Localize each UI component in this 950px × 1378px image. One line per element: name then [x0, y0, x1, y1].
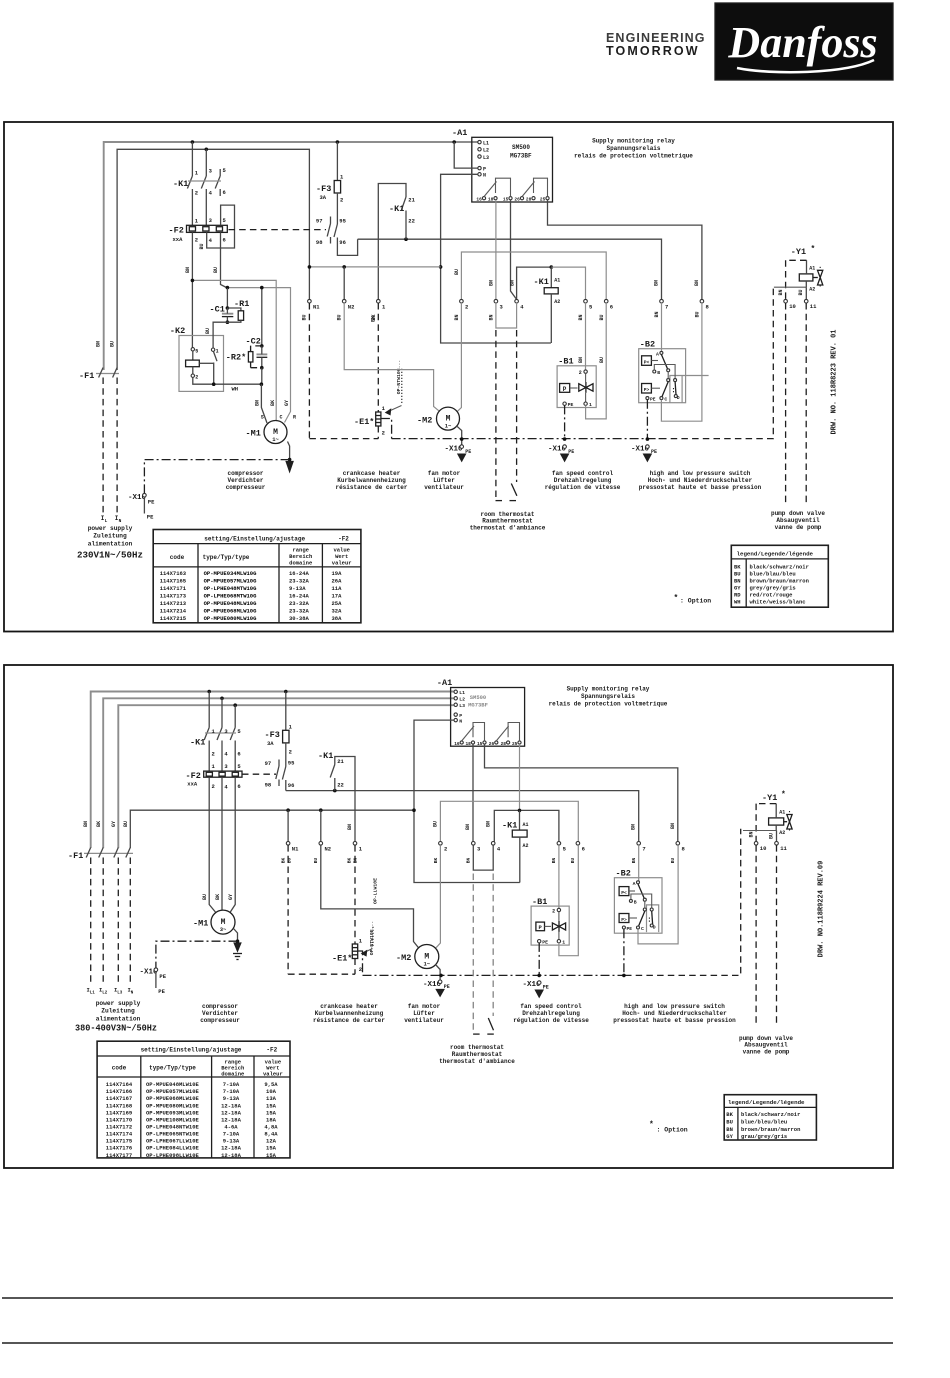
- label fan motor (box1): [424, 470, 464, 491]
- terminal 7 (box2): [631, 842, 646, 864]
- label pump down valve (box1): [771, 510, 825, 531]
- svg-text:114X7170: 114X7170: [106, 1116, 132, 1123]
- svg-text:P>: P>: [621, 917, 627, 923]
- svg-text:4-6A: 4-6A: [224, 1124, 238, 1131]
- node junction K1-22 (box2): [333, 789, 337, 793]
- svg-text:98: 98: [265, 782, 272, 789]
- B2 bottom terminals PE C D: [646, 388, 680, 403]
- wire neutral horizontal to N-junction: [309, 266, 440, 268]
- label IL IN supply currents: [101, 515, 122, 524]
- svg-text:PE: PE: [627, 926, 633, 932]
- svg-text:BK: BK: [281, 858, 287, 864]
- svg-text:114X7165: 114X7165: [160, 578, 187, 585]
- svg-text:PE: PE: [148, 499, 155, 506]
- ENGINEERING TOMORROW wordmark: [606, 31, 706, 58]
- svg-text:BN: BN: [465, 824, 471, 830]
- wire M1 ground (box2): [234, 929, 240, 944]
- svg-text:25A: 25A: [332, 600, 343, 607]
- terminal X10 PE left (box2): [140, 968, 167, 995]
- B2 wire B to second pole: [654, 365, 675, 379]
- wire B2 PE dash-dot: [646, 400, 650, 441]
- schematic 2 border frame: [4, 665, 893, 1168]
- ground arrow and earth under M1 (box2): [233, 943, 242, 960]
- svg-text:BU: BU: [123, 821, 129, 827]
- svg-text:valeur: valeur: [263, 1071, 283, 1078]
- svg-text:114X7175: 114X7175: [106, 1138, 133, 1145]
- svg-text:BU: BU: [213, 267, 219, 273]
- terminal X10 PE left (box1): [128, 493, 155, 520]
- svg-text:WH: WH: [232, 386, 239, 393]
- svg-text:5: 5: [195, 348, 198, 354]
- svg-text:N2: N2: [325, 846, 332, 853]
- svg-text:brown/braun/marron: brown/braun/marron: [741, 1126, 800, 1133]
- label high low pressure switch (box1): [639, 470, 762, 491]
- svg-text:114X7167: 114X7167: [106, 1095, 132, 1102]
- B2 second switch (box2): [619, 901, 653, 926]
- wire 96 line to terminal 7 (box2): [286, 791, 639, 842]
- svg-text:6: 6: [223, 189, 226, 196]
- svg-text:SM500: SM500: [470, 694, 487, 701]
- wire M1 S lead: [255, 384, 268, 423]
- svg-text:BU: BU: [337, 314, 343, 320]
- wire B1-1 to terminal 6 (box2): [559, 845, 578, 956]
- node junction N bus end (box2): [412, 808, 416, 812]
- svg-text:OP-LPHE065NTW10E: OP-LPHE065NTW10E: [146, 1131, 200, 1138]
- terminal 2 (box1): [454, 269, 468, 321]
- terminal 3 (box1): [489, 299, 504, 320]
- wire horizontal net to terminal 7: [358, 239, 662, 299]
- svg-text:-M2: -M2: [417, 416, 432, 426]
- legend table (box1): [731, 545, 828, 607]
- svg-text:BU: BU: [670, 858, 676, 864]
- svg-text:A: A: [633, 881, 636, 887]
- svg-text:16: 16: [454, 741, 460, 747]
- svg-text:BN: BN: [489, 280, 495, 286]
- E1 leader arrow and type labels (box2): [362, 878, 379, 956]
- svg-text:setting/Einstellung/ajustage: setting/Einstellung/ajustage: [141, 1047, 242, 1054]
- svg-text:N: N: [459, 719, 462, 725]
- svg-text:97: 97: [316, 218, 323, 225]
- wire N bus (box1): [117, 149, 309, 370]
- terminal 11 (box2): [769, 833, 788, 1027]
- svg-text:résistance de carter: résistance de carter: [313, 1017, 385, 1024]
- svg-text:DRW. NO.118R9224 REV.09: DRW. NO.118R9224 REV.09: [818, 861, 826, 958]
- wire B1-1 to terminal 6: [586, 303, 607, 419]
- svg-text:pressostat haute et basse pres: pressostat haute et basse pression: [639, 484, 762, 491]
- svg-text:12-18A: 12-18A: [221, 1116, 242, 1123]
- svg-text:114X7176: 114X7176: [106, 1145, 132, 1152]
- svg-text:TOMORROW: TOMORROW: [606, 44, 700, 58]
- svg-text:PE: PE: [159, 973, 166, 980]
- B2 second switch contacts: [642, 372, 677, 397]
- svg-text:BU: BU: [599, 357, 605, 363]
- room thermostat switch (box1): [496, 484, 518, 501]
- label crankcase heater (box2): [313, 1003, 385, 1024]
- svg-text:ENGINEERING: ENGINEERING: [606, 31, 706, 45]
- svg-text:114X7215: 114X7215: [160, 615, 187, 622]
- svg-text:2: 2: [579, 370, 582, 376]
- svg-text:6: 6: [582, 846, 585, 853]
- svg-text:7-10A: 7-10A: [223, 1081, 240, 1088]
- terminal X10 PE under M2 (box2): [423, 980, 450, 996]
- compressor motor M1 (box2): [193, 910, 235, 934]
- svg-text:D: D: [653, 925, 656, 931]
- label supply monitoring relay (box2): [549, 686, 668, 708]
- svg-text:2: 2: [444, 846, 447, 853]
- wire A1-25 to terminal 8: [548, 200, 702, 300]
- wire B1 PE (box2): [537, 943, 541, 977]
- svg-text:OP-MPUE068MLW10G: OP-MPUE068MLW10G: [204, 608, 258, 615]
- svg-text:23-32A: 23-32A: [289, 578, 310, 585]
- svg-text:N1: N1: [292, 846, 299, 853]
- wire terminal5 to B1: [578, 303, 586, 370]
- B2 wire B to second pole (box2): [631, 894, 652, 908]
- svg-text:BU: BU: [454, 269, 460, 275]
- label room thermostat (box1): [470, 511, 546, 532]
- svg-text:7-10A: 7-10A: [223, 1088, 240, 1095]
- terminal X10 PE under B1: [548, 445, 574, 461]
- svg-text:BU: BU: [202, 894, 208, 900]
- svg-text:-R1: -R1: [234, 299, 249, 309]
- node junction N1 drop (box2): [286, 808, 290, 812]
- node junction M1 ground on PE line: [288, 458, 292, 462]
- start relay K2 box (box1): [170, 326, 224, 391]
- svg-text:régulation de vitesse: régulation de vitesse: [545, 484, 621, 491]
- wire room thermostat dashed pair: [496, 330, 517, 497]
- wire A1 N to neutral net: [441, 174, 551, 343]
- room thermostat switch (box2): [473, 1018, 494, 1034]
- svg-text:L3: L3: [117, 991, 123, 995]
- svg-text:15: 15: [477, 741, 483, 747]
- svg-text:BU: BU: [205, 328, 211, 334]
- B1 internals (box2): [536, 908, 566, 945]
- svg-text:BN: BN: [654, 311, 660, 317]
- wire F2 trip dashed (box2): [242, 773, 276, 775]
- contactor K1 aux contact 21-22 (box1): [371, 184, 416, 323]
- svg-text:N: N: [119, 518, 122, 524]
- svg-text:P: P: [563, 386, 567, 393]
- settings table (box1): [153, 530, 361, 623]
- svg-text:A2: A2: [779, 830, 785, 836]
- svg-text:blue/blau/bleu: blue/blau/bleu: [750, 571, 796, 578]
- contactor K1 aux 21-22 (box2): [318, 751, 355, 842]
- svg-text:RD: RD: [734, 592, 741, 599]
- svg-text:A2: A2: [809, 287, 815, 293]
- svg-text:1~: 1~: [445, 423, 452, 430]
- B2 inner option frame: [670, 376, 709, 403]
- svg-text:ventilateur: ventilateur: [424, 484, 464, 491]
- terminal 8 (box2): [670, 842, 685, 864]
- PE dash-dot to X10 left (box2): [156, 941, 238, 968]
- svg-text:OP-MPUE048MLW10E: OP-MPUE048MLW10E: [146, 1081, 200, 1088]
- svg-text:: Option: : Option: [680, 598, 711, 605]
- svg-text:BK: BK: [433, 858, 439, 864]
- svg-text:97: 97: [265, 760, 272, 767]
- svg-text:OP-MPUE057MLW10G: OP-MPUE057MLW10G: [204, 578, 258, 585]
- svg-text:-K1: -K1: [534, 277, 549, 287]
- svg-text:*: *: [811, 245, 816, 254]
- fuse-switch F1 (box2): [68, 821, 133, 861]
- wire coil line to terminal 5: [551, 267, 585, 299]
- wire terminal2-terminal6 link (box2): [440, 801, 578, 841]
- svg-text:114X7166: 114X7166: [106, 1088, 132, 1095]
- svg-text:alimentation: alimentation: [96, 1015, 141, 1022]
- terminal 1 (box1): [371, 299, 386, 320]
- svg-text:BN: BN: [726, 1126, 733, 1133]
- svg-text:BN: BN: [578, 357, 584, 363]
- svg-text:BU: BU: [769, 833, 775, 839]
- A1 input terminals (box2): [454, 690, 488, 724]
- wire E1 PE to bus (box2): [358, 951, 363, 974]
- svg-text:26A: 26A: [332, 578, 343, 585]
- svg-text:C: C: [641, 926, 644, 932]
- svg-text:A2: A2: [554, 299, 560, 305]
- terminal 6 (box2): [570, 842, 585, 864]
- svg-text:alimentation: alimentation: [88, 540, 133, 547]
- svg-text:-A1: -A1: [437, 678, 452, 688]
- svg-text:26: 26: [489, 741, 495, 747]
- svg-text:P>: P>: [644, 387, 650, 393]
- svg-text:28: 28: [526, 197, 532, 203]
- terminal N2 (box1): [337, 299, 355, 320]
- node junction L-bus to F3: [336, 140, 340, 144]
- wire L1 bus (box2): [91, 692, 454, 849]
- svg-text:10A: 10A: [266, 1088, 277, 1095]
- svg-text:DRW. NO. 118R8223 REV. 01: DRW. NO. 118R8223 REV. 01: [831, 329, 839, 434]
- settings table rows (box2): [106, 1081, 279, 1159]
- wire 96 to row7 feed: [337, 239, 357, 255]
- svg-text:OP-LPHE067LLW10E: OP-LPHE067LLW10E: [146, 1138, 200, 1145]
- node junction K1-22 on net7: [404, 237, 408, 241]
- node junction N2 drop (box2): [319, 808, 323, 812]
- svg-text:L3: L3: [459, 703, 465, 709]
- svg-text:A2: A2: [523, 843, 529, 849]
- fan motor M2 (box1): [417, 407, 460, 430]
- svg-text:OP-LPHE048NTW10E: OP-LPHE048NTW10E: [146, 1124, 200, 1131]
- svg-text:Zuleitung: Zuleitung: [101, 1008, 135, 1015]
- svg-text:BU: BU: [302, 314, 308, 320]
- svg-text:BN: BN: [654, 280, 660, 286]
- svg-text:2: 2: [552, 909, 555, 915]
- svg-text:OP-LPHE068MTW10G: OP-LPHE068MTW10G: [204, 593, 258, 600]
- svg-text:-E1*: -E1*: [332, 954, 352, 964]
- svg-text:GY: GY: [228, 894, 234, 900]
- svg-text:230V1N~/50Hz: 230V1N~/50Hz: [77, 550, 143, 561]
- contactor coil K1 A1-A2 (box1): [534, 267, 561, 343]
- svg-text:-F3: -F3: [316, 184, 331, 194]
- fuse F3 (box2): [265, 692, 293, 759]
- svg-text:BU: BU: [199, 243, 205, 249]
- label option note (box1): [674, 594, 712, 605]
- svg-text:11A: 11A: [332, 585, 343, 592]
- svg-text:OP-MPUE080MLW10G: OP-MPUE080MLW10G: [204, 615, 258, 622]
- label fan motor (box2): [404, 1003, 444, 1024]
- svg-text:thermostat d'ambiance: thermostat d'ambiance: [439, 1058, 515, 1065]
- svg-text:BU: BU: [313, 858, 319, 864]
- wire terminal3-4 jumper: [496, 303, 517, 328]
- start capacitor C2 (box1): [246, 286, 268, 384]
- label crankcase heater (box1): [335, 470, 407, 491]
- svg-text:15A: 15A: [266, 1102, 277, 1109]
- svg-text:OP-LLW10E: OP-LLW10E: [373, 878, 379, 904]
- run capacitor C1 (box1): [210, 288, 234, 324]
- node junction K2 contact to bottom wire: [212, 382, 216, 386]
- legend rows (box1): [734, 564, 809, 606]
- svg-text:28: 28: [501, 741, 507, 747]
- svg-text:OP-MPUE108MLW10E: OP-MPUE108MLW10E: [146, 1116, 200, 1123]
- svg-text:6: 6: [610, 304, 613, 311]
- Y1 valve symbol (box2): [784, 811, 792, 832]
- svg-text:OP-NTW10G...: OP-NTW10G...: [396, 360, 402, 395]
- svg-text:domaine: domaine: [221, 1071, 245, 1078]
- svg-text:6: 6: [237, 783, 240, 790]
- svg-text:OP-LPHE098LLW10E: OP-LPHE098LLW10E: [146, 1152, 200, 1159]
- node junction L-bus to A1 P-wire: [452, 140, 456, 144]
- svg-text:2: 2: [340, 197, 343, 204]
- wire K1 coil circuit from terminal 4: [517, 267, 552, 303]
- svg-text:MG73BF: MG73BF: [468, 702, 488, 709]
- terminal X10 PE under M2: [445, 445, 472, 461]
- svg-text:-K1: -K1: [318, 751, 333, 761]
- svg-text:2: 2: [382, 430, 385, 437]
- terminal X10 PE under B2: [631, 445, 657, 461]
- svg-text:-F2: -F2: [266, 1047, 277, 1054]
- wire terminal1 dashed to E1 (box2): [354, 845, 356, 944]
- Y1 valve symbol: [813, 267, 823, 289]
- svg-text:BN: BN: [670, 823, 676, 829]
- svg-text:114X7213: 114X7213: [160, 600, 187, 607]
- A1 relay output contacts 16 18 15 26 28 25: [476, 178, 549, 202]
- label fan speed control (box1): [545, 470, 621, 491]
- terminal 11 (box1): [798, 289, 817, 505]
- svg-text:BN: BN: [347, 824, 353, 830]
- svg-text:-K1: -K1: [502, 821, 517, 831]
- svg-text:114X7177: 114X7177: [106, 1152, 132, 1159]
- svg-text:2: 2: [359, 966, 362, 973]
- bleed resistor R1 (box1): [227, 299, 249, 322]
- svg-text:C: C: [664, 397, 667, 403]
- PE dash-dot bus (box2): [363, 829, 741, 976]
- wire N1 riser (box2): [287, 810, 289, 841]
- svg-text:18: 18: [465, 741, 471, 747]
- svg-text:code: code: [170, 554, 185, 561]
- svg-text:-F2: -F2: [186, 771, 201, 781]
- svg-text:-R2*: -R2*: [226, 353, 246, 363]
- terminal N1 (box1): [302, 299, 321, 320]
- svg-text:P<: P<: [621, 890, 627, 896]
- svg-text:4,8A: 4,8A: [264, 1124, 278, 1131]
- node junction K1 coil A1: [550, 265, 554, 269]
- settings table rows (box1): [160, 570, 342, 622]
- svg-text:P<: P<: [644, 359, 650, 365]
- node junction L-bus to K1 pole1: [191, 140, 195, 144]
- svg-text:114X7163: 114X7163: [160, 570, 187, 577]
- svg-text:-B1: -B1: [558, 357, 573, 367]
- svg-text:23-32A: 23-32A: [289, 608, 310, 615]
- svg-text:2: 2: [195, 190, 198, 197]
- svg-text:brown/braun/marron: brown/braun/marron: [750, 578, 809, 585]
- node junction L1-K1 (box2): [207, 690, 211, 694]
- svg-text:-Y1: -Y1: [762, 793, 777, 803]
- svg-text:legend/Legende/légende: legend/Legende/légende: [737, 551, 814, 558]
- svg-text:BN: BN: [510, 280, 516, 286]
- overload relay F2 (box1): [169, 217, 228, 244]
- node junction BN wire at 192.4,280.4: [191, 279, 195, 283]
- svg-text:-K1: -K1: [173, 179, 188, 189]
- svg-text:SM500: SM500: [512, 144, 530, 151]
- wire N1 dashed heater loop (box2): [288, 845, 355, 974]
- terminal 4 (box2): [486, 821, 501, 853]
- svg-text:BK: BK: [270, 400, 276, 406]
- svg-text:blue/bleu/bleu: blue/bleu/bleu: [741, 1119, 787, 1126]
- wire N2 to M2 left (box2): [321, 845, 419, 947]
- svg-text:BN: BN: [486, 821, 492, 827]
- terminal 5 (box1): [578, 299, 593, 320]
- svg-text:BN: BN: [748, 831, 754, 837]
- svg-text:BU: BU: [110, 341, 116, 347]
- wire F2 trip linkage dashed: [229, 229, 327, 231]
- wire N line (box2): [130, 810, 414, 848]
- svg-text:1~: 1~: [272, 436, 279, 443]
- node junction L3-K1 (box2): [233, 703, 237, 707]
- svg-text:BN: BN: [734, 578, 741, 585]
- node junction L1-F3 (box2): [284, 690, 288, 694]
- svg-text:98: 98: [316, 239, 323, 246]
- svg-text:23-32A: 23-32A: [289, 600, 310, 607]
- pressure switch B2 box (box1): [639, 340, 686, 403]
- svg-text:-C2: -C2: [246, 337, 261, 347]
- svg-text:22: 22: [337, 782, 344, 789]
- svg-text:2: 2: [212, 783, 215, 790]
- svg-text:BU: BU: [734, 571, 741, 578]
- svg-text:vanne de pomp: vanne de pomp: [775, 524, 822, 531]
- svg-text:96: 96: [288, 782, 295, 789]
- svg-text:ventilateur: ventilateur: [404, 1017, 444, 1024]
- svg-text:10: 10: [760, 845, 767, 852]
- svg-text:OP-MPUE048MLW10G: OP-MPUE048MLW10G: [204, 600, 258, 607]
- start resistor R2 optional (box1): [226, 346, 262, 368]
- svg-text:WH: WH: [734, 598, 741, 605]
- terminal 3 (box2): [466, 842, 481, 864]
- wire BU grey feed to motor R: [227, 288, 290, 423]
- svg-text:96: 96: [339, 239, 346, 246]
- svg-text:25: 25: [540, 197, 546, 203]
- supply monitoring relay A1 box (box1): [452, 128, 553, 202]
- svg-text:*: *: [674, 594, 679, 603]
- wire B2 PE (box2): [622, 929, 626, 977]
- svg-text:valeur: valeur: [332, 560, 352, 567]
- svg-text:PE: PE: [158, 988, 165, 995]
- wires supply dashed below F1 (box2): [91, 858, 131, 986]
- svg-text:L2: L2: [459, 697, 465, 703]
- terminal 7 (box1): [654, 299, 668, 317]
- wire terminal1 dashed to E1: [377, 303, 379, 412]
- svg-text:2: 2: [289, 749, 292, 756]
- svg-text:BN: BN: [631, 824, 637, 830]
- svg-text:-F1: -F1: [79, 371, 94, 381]
- aux contact 95-96 97-98 (box1): [316, 217, 347, 247]
- svg-text:power supply: power supply: [96, 1000, 141, 1007]
- svg-text:114X7168: 114X7168: [106, 1102, 133, 1109]
- wire C1 to K2 contact 1: [205, 322, 227, 348]
- contactor K1 main contacts (box1): [173, 142, 227, 225]
- svg-text:12-18A: 12-18A: [221, 1152, 242, 1159]
- svg-text:9-13A: 9-13A: [223, 1095, 240, 1102]
- svg-text:BN: BN: [694, 280, 700, 286]
- terminal N1 (box2): [281, 842, 300, 864]
- svg-text:N: N: [483, 173, 486, 179]
- node junction N2 drop: [342, 265, 346, 269]
